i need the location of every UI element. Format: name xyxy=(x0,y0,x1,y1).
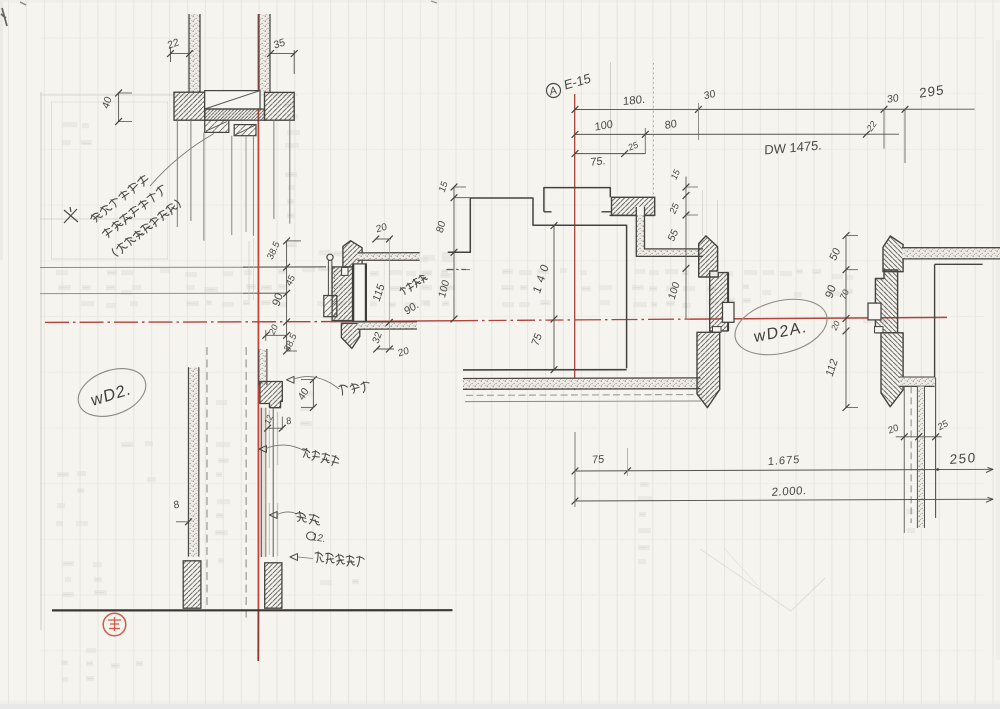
wall band right of jamb (stipple) xyxy=(902,248,1000,259)
faint extension above jambs xyxy=(702,190,704,236)
dim 40 (cap height) xyxy=(312,380,314,408)
dotted edge xyxy=(334,267,335,295)
panel fill xyxy=(260,408,268,557)
dim chain 140/75 (x554) xyxy=(553,225,555,369)
scan edge shading xyxy=(0,0,3,260)
svg-text:30: 30 xyxy=(887,92,899,106)
annotation: chamfer 面取り xyxy=(287,376,295,383)
dim line 180/30/30/295 xyxy=(575,108,975,110)
scan specks top-left corner xyxy=(1,8,7,26)
guide line y293 xyxy=(40,292,243,294)
svg-text:80: 80 xyxy=(664,118,677,132)
concealed door closer body xyxy=(205,91,260,109)
bottom dim line 2000 xyxy=(575,499,993,501)
sill dashed line xyxy=(466,394,702,397)
jamb stop top piece (hatched) xyxy=(343,241,362,267)
faint V guide bottom middle xyxy=(700,549,825,611)
extension line through jamb xyxy=(388,239,390,349)
closer guide step piece xyxy=(205,120,229,132)
sill lower line xyxy=(465,400,701,403)
jamb body (hatched) xyxy=(332,267,352,321)
plan outline bottom xyxy=(463,369,627,371)
guide line y267 xyxy=(40,266,243,268)
dim 12 / 8 xyxy=(268,427,283,429)
floor baseline xyxy=(52,609,453,611)
door leaf section xyxy=(353,263,367,322)
red seal stamp xyxy=(103,613,126,636)
plan outline left/with steps xyxy=(448,198,627,368)
annotation: base board 座板 φ12 xyxy=(270,512,278,519)
header block left (hatched) xyxy=(174,92,205,120)
dim line 75/25 xyxy=(575,153,645,155)
wall band bottom (stipple) xyxy=(358,322,418,329)
svg-text:180.: 180. xyxy=(623,94,645,108)
middle jamb striker box xyxy=(723,302,735,322)
door line extensions xyxy=(248,241,250,300)
header center bar (dense hatch) xyxy=(205,109,265,120)
middle jamb body xyxy=(710,273,728,331)
middle jamb lower body xyxy=(697,332,720,407)
svg-text:2.000.: 2.000. xyxy=(771,485,807,499)
svg-text:30: 30 xyxy=(703,88,716,102)
svg-text:75.: 75. xyxy=(590,155,605,169)
right jamb : top piece xyxy=(883,236,903,272)
dim 20/25 bottom right xyxy=(896,436,942,438)
red centerline horizontal xyxy=(45,321,330,324)
verticals below right jamb xyxy=(903,386,905,533)
WD2A bubble xyxy=(729,290,833,363)
right jamb lower body xyxy=(881,333,903,407)
leader to door closer xyxy=(150,134,214,187)
right wall strip top (stipple) xyxy=(259,349,266,385)
centerline dashes at foot xyxy=(446,269,472,271)
annotation steel 90 xyxy=(399,273,428,296)
guide rail block xyxy=(234,125,256,136)
mark ※ xyxy=(64,207,78,223)
left wall base block (hatched) xyxy=(183,561,201,608)
faint extension above niche right leg xyxy=(610,62,612,187)
band below corner (stipple) xyxy=(899,378,934,387)
svg-text:12.: 12. xyxy=(310,532,326,545)
sill band (stipple) xyxy=(463,379,701,389)
wall corner lines right xyxy=(935,263,983,265)
right base block (hatched) xyxy=(265,563,282,608)
niche top hat outline xyxy=(544,188,610,212)
left wall strip (stipple) xyxy=(190,367,198,556)
middle jamb lower notch xyxy=(713,327,722,333)
right jamb striker box xyxy=(868,303,881,320)
duct channel (stipple, elbow) xyxy=(636,207,644,215)
dim chain 15/80/100 (x454) xyxy=(453,187,455,319)
jamb stop bottom piece (hatched) xyxy=(341,323,359,348)
header block right (hatched) xyxy=(265,92,295,120)
right jamb lower notch xyxy=(875,327,884,333)
pencil guide lines xyxy=(40,92,42,630)
panel lines xyxy=(260,408,262,557)
middle jamb WD2A : top piece xyxy=(699,236,718,277)
bottom dim line 75/1675/250 xyxy=(575,469,993,471)
cap rail block (hatched) xyxy=(260,382,282,408)
WD2 bubble xyxy=(72,360,153,425)
dim line 100/80/DW1475/22 xyxy=(575,133,899,135)
extension lines bottom xyxy=(574,432,576,507)
red centerline vertical (right figure) xyxy=(574,94,576,390)
dashed lines xyxy=(206,347,208,605)
svg-text:250: 250 xyxy=(949,450,976,467)
wall stud left (stippled) xyxy=(189,14,200,93)
dotted construction vertical x653 xyxy=(653,63,655,196)
annotation: 糸面取り xyxy=(290,554,298,561)
svg-text:8: 8 xyxy=(286,416,292,428)
dim 20 (bottom) xyxy=(376,348,394,350)
right jamb body xyxy=(875,270,897,333)
dim chain 38.5/45/90/20/38.5 (x286.6) xyxy=(286,241,288,351)
hinge stem xyxy=(327,260,329,295)
pivot hinge circle xyxy=(327,254,333,260)
dim chain 15/25/55/100 (x686) xyxy=(685,177,687,319)
annotation: plywood コンパネ xyxy=(259,446,267,453)
dim 20 horizontal xyxy=(266,334,287,336)
svg-text:1.675: 1.675 xyxy=(768,454,801,468)
wall band top (stipple) xyxy=(358,253,420,260)
wall stud right (stippled) xyxy=(259,14,270,93)
door leaf lines xyxy=(176,120,178,227)
hatched wall block xyxy=(612,197,655,215)
label A E-15 xyxy=(547,84,561,98)
striker box (hatched) xyxy=(324,296,337,317)
dim chain 50/90/70/20/112 (x846) xyxy=(845,236,847,408)
red centerline vertical (left figure) xyxy=(257,14,259,610)
svg-text:75: 75 xyxy=(592,454,605,467)
bleed-through faint text xyxy=(56,102,915,682)
